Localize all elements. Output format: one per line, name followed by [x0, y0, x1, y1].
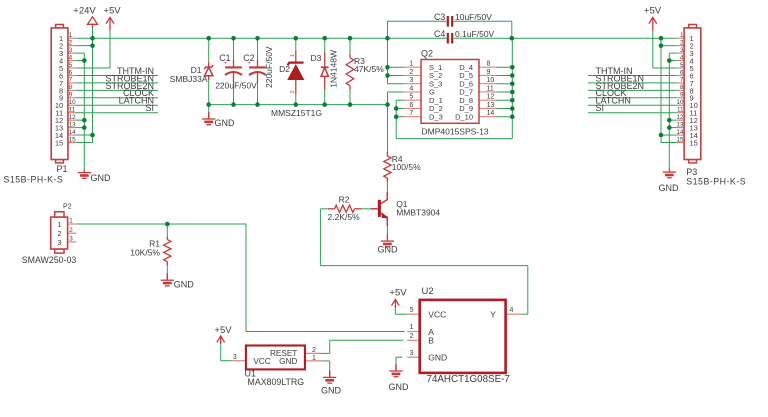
svg-text:1: 1	[680, 32, 684, 39]
svg-text:1: 1	[312, 355, 316, 362]
svg-text:10: 10	[487, 77, 495, 84]
svg-text:4: 4	[680, 54, 684, 61]
svg-text:3: 3	[69, 47, 73, 54]
svg-text:2: 2	[312, 347, 316, 354]
svg-text:2: 2	[290, 90, 296, 93]
svg-text:1: 1	[57, 220, 61, 229]
svg-text:7: 7	[69, 77, 73, 84]
svg-text:VCC: VCC	[253, 357, 270, 366]
svg-text:8: 8	[487, 61, 491, 68]
svg-text:P1: P1	[57, 164, 68, 174]
svg-text:+24V: +24V	[73, 6, 96, 17]
svg-text:14: 14	[487, 110, 495, 117]
svg-text:13: 13	[676, 121, 684, 128]
svg-text:2: 2	[69, 39, 73, 46]
svg-text:MAX809LTRG: MAX809LTRG	[248, 377, 305, 387]
svg-text:C4: C4	[434, 29, 445, 39]
svg-text:12: 12	[487, 94, 495, 101]
svg-text:2: 2	[57, 229, 61, 238]
svg-text:GND: GND	[215, 118, 236, 128]
svg-text:6: 6	[69, 69, 73, 76]
svg-text:15: 15	[69, 136, 77, 143]
svg-text:14: 14	[676, 129, 684, 136]
svg-text:SMBJ33A: SMBJ33A	[170, 74, 208, 84]
svg-text:2.2K/5%: 2.2K/5%	[328, 212, 361, 222]
svg-text:SMAW250-03: SMAW250-03	[22, 255, 77, 265]
svg-text:D2: D2	[279, 64, 290, 74]
svg-text:13: 13	[69, 121, 77, 128]
svg-text:7: 7	[680, 77, 684, 84]
svg-text:GND: GND	[659, 183, 680, 193]
svg-text:2: 2	[409, 69, 413, 76]
svg-text:P3: P3	[686, 167, 697, 177]
svg-text:B: B	[428, 336, 434, 346]
svg-text:3: 3	[57, 238, 61, 247]
svg-text:GND: GND	[91, 173, 112, 183]
svg-text:8: 8	[680, 84, 684, 91]
svg-text:1: 1	[410, 324, 414, 331]
svg-text:+5V: +5V	[644, 6, 662, 17]
svg-text:9: 9	[487, 69, 491, 76]
svg-text:GND: GND	[321, 386, 342, 396]
svg-text:3: 3	[410, 350, 414, 357]
svg-text:10: 10	[676, 99, 684, 106]
svg-text:0.1uF/50V: 0.1uF/50V	[455, 29, 495, 39]
svg-text:5: 5	[409, 94, 413, 101]
svg-text:5: 5	[69, 62, 73, 69]
svg-text:3: 3	[233, 354, 237, 361]
svg-text:1: 1	[409, 61, 413, 68]
svg-text:+5V: +5V	[103, 6, 121, 17]
svg-text:U2: U2	[422, 286, 434, 297]
svg-text:GND: GND	[428, 353, 447, 363]
svg-text:R2: R2	[339, 195, 350, 205]
svg-text:GND: GND	[279, 357, 297, 366]
svg-text:+5V: +5V	[214, 325, 232, 336]
svg-text:12: 12	[69, 114, 77, 121]
svg-text:5: 5	[410, 307, 414, 314]
svg-text:13: 13	[487, 102, 495, 109]
svg-text:220uF/50V: 220uF/50V	[264, 46, 274, 88]
svg-text:DMP4015SPS-13: DMP4015SPS-13	[422, 126, 489, 136]
svg-text:2: 2	[680, 39, 684, 46]
svg-text:Y: Y	[490, 310, 496, 320]
svg-text:D3: D3	[311, 53, 322, 63]
svg-text:C3: C3	[434, 12, 445, 22]
svg-text:+5V: +5V	[389, 288, 407, 299]
svg-text:11: 11	[677, 107, 684, 114]
svg-text:47K/5%: 47K/5%	[354, 64, 384, 74]
svg-text:MMBT3904: MMBT3904	[396, 207, 440, 217]
svg-text:12: 12	[676, 114, 684, 121]
svg-text:11: 11	[487, 85, 494, 92]
svg-text:GND: GND	[389, 382, 410, 392]
svg-text:C1: C1	[219, 53, 230, 63]
svg-text:SI: SI	[145, 103, 154, 113]
svg-text:2: 2	[410, 333, 414, 340]
svg-text:2: 2	[69, 227, 73, 234]
svg-text:C2: C2	[243, 53, 254, 63]
svg-text:S15B-PH-K-S: S15B-PH-K-S	[686, 177, 746, 187]
svg-text:220uF/50V: 220uF/50V	[215, 81, 257, 91]
svg-text:15: 15	[55, 138, 63, 147]
svg-text:9: 9	[69, 92, 73, 99]
svg-text:100/5%: 100/5%	[392, 162, 421, 172]
svg-text:VCC: VCC	[428, 310, 446, 320]
svg-text:1: 1	[69, 32, 73, 39]
svg-text:4: 4	[510, 307, 514, 314]
svg-text:7: 7	[409, 110, 413, 117]
svg-text:14: 14	[69, 129, 77, 136]
svg-text:4: 4	[69, 54, 73, 61]
svg-text:15: 15	[690, 138, 698, 147]
svg-text:74AHCT1G08SE-7: 74AHCT1G08SE-7	[427, 374, 510, 385]
svg-text:SI: SI	[596, 103, 605, 113]
svg-text:S15B-PH-K-S: S15B-PH-K-S	[4, 175, 64, 185]
svg-text:9: 9	[680, 92, 684, 99]
svg-text:15: 15	[676, 136, 684, 143]
svg-text:6: 6	[409, 102, 413, 109]
svg-text:11: 11	[69, 107, 76, 114]
svg-text:10uF/50V: 10uF/50V	[455, 12, 492, 22]
svg-text:8: 8	[69, 84, 73, 91]
svg-text:D_10: D_10	[455, 112, 473, 121]
svg-text:MMSZ15T1G: MMSZ15T1G	[271, 108, 322, 118]
svg-text:D_3: D_3	[429, 112, 443, 121]
svg-text:3: 3	[69, 236, 73, 243]
svg-text:P2: P2	[63, 204, 72, 211]
svg-text:4: 4	[409, 85, 413, 92]
svg-text:10K/5%: 10K/5%	[130, 247, 160, 257]
svg-text:5: 5	[680, 62, 684, 69]
svg-text:Q2: Q2	[421, 49, 433, 59]
svg-text:3: 3	[409, 77, 413, 84]
svg-text:1: 1	[290, 54, 296, 57]
svg-text:6: 6	[680, 69, 684, 76]
svg-text:1N4148W: 1N4148W	[328, 50, 338, 88]
svg-text:GND: GND	[378, 245, 399, 255]
svg-text:1: 1	[69, 218, 73, 225]
svg-text:GND: GND	[174, 280, 195, 290]
svg-text:3: 3	[680, 47, 684, 54]
svg-text:10: 10	[69, 99, 77, 106]
